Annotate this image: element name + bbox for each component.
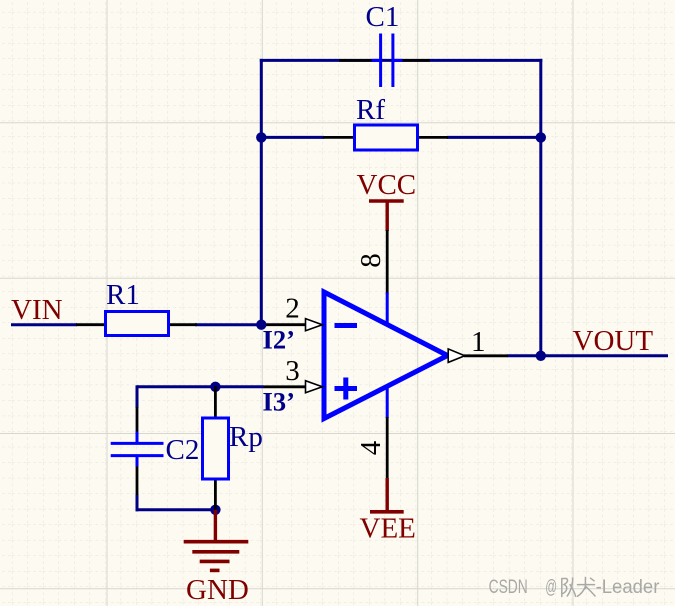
svg-text:CSDN: CSDN [489, 576, 528, 598]
power port VEE [370, 478, 404, 512]
wire C2 branch bottom [136, 495, 139, 512]
svg-text:Rp: Rp [229, 421, 263, 453]
wire VIN input [11, 323, 77, 326]
svg-text:VCC: VCC [357, 169, 417, 201]
resistor R1 [76, 312, 197, 336]
svg-text:C1: C1 [366, 1, 400, 33]
capacitor C1 [339, 34, 430, 88]
junction node output [536, 351, 546, 361]
svg-text:1: 1 [471, 326, 486, 358]
capacitor C2 [111, 407, 164, 495]
svg-text:C2: C2 [166, 434, 200, 466]
wire top horizontal C1 branch [260, 59, 543, 62]
junction node bottom [210, 505, 220, 515]
wire left vertical feedback [260, 59, 263, 325]
junction node feedback left [256, 132, 266, 142]
wire bottom horizontal to GND node [136, 508, 216, 511]
wire C2 branch top [136, 385, 139, 408]
wire non-inverting input [137, 385, 264, 388]
svg-text:GND: GND [186, 574, 249, 606]
junction node feedback right [536, 132, 546, 142]
wire right vertical feedback [539, 59, 542, 356]
svg-text:R1: R1 [106, 279, 140, 311]
svg-text:VOUT: VOUT [573, 325, 654, 357]
svg-text:VIN: VIN [11, 294, 63, 326]
svg-text:2: 2 [285, 293, 300, 325]
svg-text:4: 4 [355, 440, 387, 455]
wire feedback left of Rf [261, 136, 324, 139]
power port VCC [369, 201, 404, 231]
watermark CSDN [489, 576, 660, 598]
svg-text:-Leader: -Leader [596, 576, 660, 598]
junction node non-inverting input [210, 382, 220, 392]
svg-text:3: 3 [285, 355, 300, 387]
junction node inverting input [256, 320, 266, 330]
resistor Rf [323, 125, 448, 150]
svg-text:I2’: I2’ [263, 324, 295, 354]
ground symbol GND [184, 510, 249, 571]
resistor Rp [203, 386, 229, 511]
svg-text:Rf: Rf [356, 94, 385, 126]
svg-text:I3’: I3’ [263, 387, 295, 417]
svg-text:8: 8 [355, 253, 387, 268]
svg-text:@: @ [545, 576, 557, 598]
svg-text:VEE: VEE [360, 513, 416, 545]
wire R1 to inverting node [195, 323, 263, 326]
op-amp U1 [261, 230, 508, 479]
wire feedback right of Rf [447, 136, 541, 139]
wire output VOUT [508, 354, 669, 357]
